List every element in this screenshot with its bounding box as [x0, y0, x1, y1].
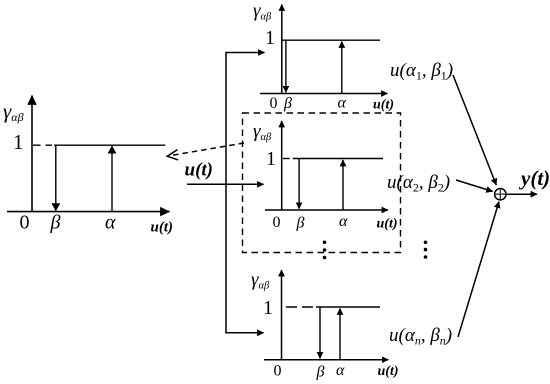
top plot x-axis	[260, 93, 388, 95]
svg-text:1: 1	[13, 130, 24, 154]
svg-text:u(t): u(t)	[378, 364, 399, 379]
top plot y-axis	[281, 5, 283, 94]
svg-text:0: 0	[274, 363, 282, 380]
middle plot level-1 line	[293, 158, 383, 160]
svg-text:1: 1	[265, 27, 275, 49]
branch wire vertical	[225, 53, 227, 333]
svg-text:0: 0	[273, 214, 281, 231]
left plot down arrow at beta	[55, 145, 57, 210]
wire from u2 to summer	[456, 180, 493, 191]
middle plot x-axis	[265, 209, 388, 211]
bottom plot y-axis	[281, 270, 283, 360]
svg-text:α: α	[336, 362, 345, 379]
svg-text:γαβ: γαβ	[253, 1, 272, 23]
svg-text:γαβ: γαβ	[253, 121, 272, 143]
wire to bottom plot	[225, 332, 263, 334]
svg-text:β: β	[316, 364, 325, 381]
wire from u1 to summer	[453, 75, 496, 185]
svg-text:u(t): u(t)	[377, 217, 398, 232]
left plot y-axis	[31, 96, 33, 212]
top plot up arrow at alpha	[341, 42, 343, 94]
middle plot y-axis	[281, 121, 283, 210]
svg-text:0: 0	[270, 95, 278, 112]
svg-text:α: α	[105, 212, 116, 234]
bottom plot dashed level segment	[286, 306, 316, 308]
bottom plot x-axis	[264, 359, 388, 361]
middle plot up arrow at alpha	[342, 160, 344, 210]
wire from un to summer	[458, 202, 499, 337]
top plot down arrow at beta	[285, 40, 287, 92]
summing junction	[495, 189, 506, 200]
vertical ellipsis right side	[424, 241, 428, 259]
svg-text:β: β	[50, 212, 61, 234]
svg-text:u(α2, β2): u(α2, β2)	[387, 172, 450, 195]
bottom plot level-1 line	[316, 306, 380, 308]
svg-text:β: β	[296, 215, 305, 232]
top plot level-1 line	[282, 39, 380, 41]
svg-text:u(αn, βn): u(αn, βn)	[389, 325, 452, 348]
left plot up arrow at alpha	[111, 146, 113, 211]
input wire	[187, 183, 264, 185]
bottom plot up arrow at alpha	[339, 309, 341, 360]
svg-text:u(t): u(t)	[151, 220, 174, 236]
svg-text:α: α	[339, 213, 348, 230]
left plot dashed level segment	[33, 144, 52, 146]
svg-text:1: 1	[263, 297, 273, 319]
vertical ellipsis between plots	[323, 241, 327, 260]
svg-text:α: α	[338, 95, 347, 112]
svg-text:u(α1, β1): u(α1, β1)	[390, 60, 453, 83]
svg-text:y(t): y(t)	[518, 166, 550, 190]
wire to top plot	[225, 52, 264, 54]
svg-text:β: β	[283, 95, 292, 112]
dashed zoom arrow	[167, 143, 244, 160]
left plot x-axis	[7, 211, 170, 213]
middle plot dashed level segment	[283, 158, 292, 160]
svg-text:1: 1	[266, 148, 276, 170]
svg-text:γαβ: γαβ	[251, 270, 270, 292]
svg-text:u(t): u(t)	[373, 97, 394, 112]
output wire	[506, 193, 537, 195]
bottom plot down arrow at beta	[319, 307, 321, 358]
dashed selection box	[243, 113, 401, 253]
svg-text:γαβ: γαβ	[3, 99, 24, 124]
middle plot down arrow at beta	[298, 159, 300, 209]
svg-text:0: 0	[20, 212, 30, 234]
svg-text:u(t): u(t)	[185, 160, 214, 181]
left plot level-1 line	[54, 144, 165, 146]
